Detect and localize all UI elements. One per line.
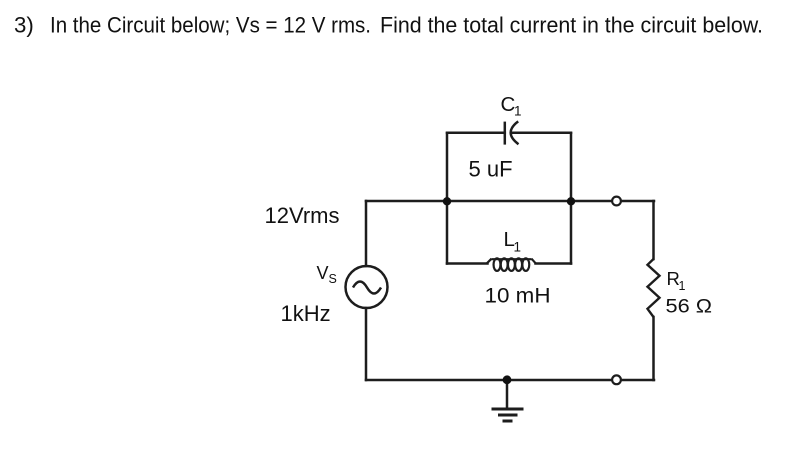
svg-text:S: S bbox=[329, 272, 337, 286]
resistor R1 zigzag bbox=[648, 259, 660, 317]
source VS (AC sine source) bbox=[346, 266, 388, 308]
svg-text:56 Ω: 56 Ω bbox=[666, 296, 713, 318]
svg-text:1: 1 bbox=[514, 240, 522, 255]
wire: capacitor right lead bbox=[512, 132, 572, 135]
wire: capacitor left lead bbox=[447, 132, 505, 135]
wire: left vertical lower (source bottom lead) bbox=[365, 308, 368, 380]
svg-text:1kHz: 1kHz bbox=[281, 301, 331, 326]
wire: right vertical lower (from resistor) bbox=[652, 317, 655, 380]
svg-text:1: 1 bbox=[514, 104, 522, 119]
wire: inductor right lead bbox=[536, 262, 572, 265]
svg-text:3): 3) bbox=[14, 13, 34, 38]
node junction dot right (LC right tap) bbox=[567, 197, 575, 205]
wire: inductor left lead bbox=[447, 262, 488, 265]
wire: top middle horizontal from source top corner to right corner bbox=[366, 200, 654, 203]
svg-text:In the Circuit below; Vs = 12: In the Circuit below; Vs = 12 V rms. bbox=[50, 13, 371, 38]
svg-text:1: 1 bbox=[679, 279, 686, 293]
capacitor C1 bbox=[505, 121, 519, 144]
wire: LC loop left vertical bbox=[446, 133, 449, 264]
inductor L1 bbox=[487, 258, 537, 271]
wire: left vertical upper (source top lead) bbox=[365, 201, 368, 266]
wire: bottom horizontal bbox=[366, 379, 654, 382]
svg-text:12Vrms: 12Vrms bbox=[265, 203, 340, 228]
wire: LC loop right vertical bbox=[570, 133, 573, 264]
svg-text:Find the total current in the: Find the total current in the circuit be… bbox=[380, 13, 763, 38]
wire: right vertical upper (to resistor) bbox=[652, 201, 655, 259]
svg-text:V: V bbox=[317, 263, 329, 283]
node junction dot bottom (ground tap) bbox=[503, 375, 512, 384]
node open terminal bottom bbox=[612, 375, 621, 384]
svg-text:5 uF: 5 uF bbox=[469, 157, 513, 182]
node open terminal top bbox=[612, 197, 621, 206]
node junction dot left (LC left tap) bbox=[443, 197, 451, 205]
ground symbol bbox=[492, 409, 524, 421]
wire: ground stub bbox=[506, 380, 509, 409]
svg-text:10 mH: 10 mH bbox=[485, 284, 551, 308]
